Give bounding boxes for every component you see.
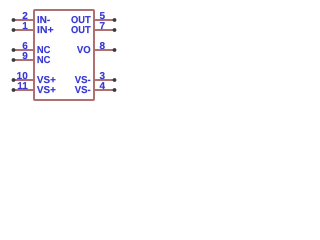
svg-text:4: 4 bbox=[100, 81, 106, 92]
pin 10 wire bbox=[14, 79, 35, 81]
op-amp U1 body bbox=[34, 10, 94, 100]
pin 5 wire bbox=[94, 19, 115, 21]
svg-text:NC: NC bbox=[37, 55, 51, 66]
svg-text:VS+: VS+ bbox=[37, 85, 56, 96]
pin 5 endpoint dot bbox=[113, 18, 117, 22]
pin 1 wire bbox=[14, 29, 35, 31]
pin 6 wire bbox=[14, 49, 35, 51]
svg-text:VO: VO bbox=[77, 45, 91, 56]
pin 3 wire bbox=[94, 79, 115, 81]
pin 4 wire bbox=[94, 89, 115, 91]
pin 6 endpoint dot bbox=[12, 48, 16, 52]
pin 8 endpoint dot bbox=[113, 48, 117, 52]
pin 1 endpoint dot bbox=[12, 28, 16, 32]
pin 9 endpoint dot bbox=[12, 58, 16, 62]
svg-text:OUT: OUT bbox=[71, 25, 91, 36]
pin 11 endpoint dot bbox=[12, 88, 16, 92]
pin 2 endpoint dot bbox=[12, 18, 16, 22]
pin 9 wire bbox=[14, 59, 35, 61]
pin 7 endpoint dot bbox=[113, 28, 117, 32]
pin 8 wire bbox=[94, 49, 115, 51]
pin 7 wire bbox=[94, 29, 115, 31]
pin 10 endpoint dot bbox=[12, 78, 16, 82]
svg-text:8: 8 bbox=[100, 41, 106, 52]
pin 11 wire bbox=[14, 89, 35, 91]
pin 4 endpoint dot bbox=[113, 88, 117, 92]
svg-text:7: 7 bbox=[100, 21, 106, 32]
pin 2 wire bbox=[14, 19, 35, 21]
svg-text:1: 1 bbox=[22, 21, 28, 32]
svg-text:IN+: IN+ bbox=[37, 25, 54, 36]
svg-text:VS-: VS- bbox=[75, 85, 91, 96]
pin 3 endpoint dot bbox=[113, 78, 117, 82]
svg-text:11: 11 bbox=[17, 81, 28, 92]
svg-text:9: 9 bbox=[22, 51, 28, 62]
